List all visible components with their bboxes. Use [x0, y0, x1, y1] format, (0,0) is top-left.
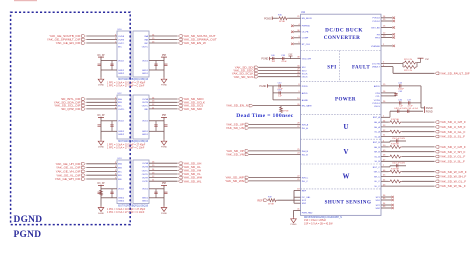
- node YAK_SD_SDI: [235, 65, 259, 69]
- ground DGND under U10: [98, 78, 105, 87]
- pin number 28: [297, 72, 300, 74]
- svg-text:YAK_SD_UN: YAK_SD_UN: [226, 126, 244, 130]
- node YAK_SD_W_SL_F: [435, 184, 466, 188]
- wire GND1: [149, 130, 164, 132]
- svg-text:GND2: GND2: [118, 198, 125, 200]
- svg-text:INL_C: INL_C: [302, 181, 309, 183]
- wire DC_CAL: [294, 196, 301, 198]
- U13 pin names: [118, 162, 149, 203]
- wire PWR_PAD down: [293, 210, 295, 217]
- wire YAK_SD_WP: [249, 176, 301, 178]
- node YAK_SD_V_GH_F: [435, 145, 466, 149]
- svg-text:AVDD: AVDD: [302, 92, 308, 95]
- pin number 4: [115, 101, 117, 103]
- no-connect stub pin 12: [381, 33, 395, 36]
- pin number 2: [115, 38, 117, 40]
- node YAK_SD_V_SH_F: [435, 150, 465, 154]
- node YAK_SD_V_GL_F: [435, 155, 465, 159]
- svg-text:COMP: COMP: [302, 38, 309, 40]
- wire BST_A: [381, 116, 390, 118]
- ground DGND under U12: [98, 140, 105, 149]
- svg-text:1 PF1 = 0.7uA = 27 75pF = C 10: 1 PF1 = 0.7uA = 27 75pF = C 10nF: [107, 84, 145, 87]
- node YAK_SD_VH: [178, 169, 201, 173]
- pin number 13: [152, 172, 155, 174]
- svg-text:VDD2: VDD2: [118, 189, 125, 191]
- node YAK_SD_SDA_DIF: [54, 100, 86, 104]
- wire PGND to R16: [272, 17, 277, 19]
- wire D3_3P to VDD2: [101, 60, 117, 62]
- pin number 3: [115, 97, 117, 99]
- SPI/FAULT divider: [339, 51, 341, 82]
- no-connect stub pin 3: [291, 36, 300, 39]
- svg-text:INE: INE: [118, 179, 122, 181]
- node YAK_SD_SDI: [178, 107, 202, 111]
- wire YAK_SD_UH: [149, 162, 178, 164]
- capacitor C45 charge pump: [394, 91, 403, 96]
- svg-text:SDI: SDI: [302, 67, 306, 69]
- wire YAK_SD_UN: [249, 127, 301, 129]
- pin number 14: [152, 169, 155, 171]
- wire PWR_PAD: [294, 209, 301, 211]
- U13 note 2: [107, 211, 145, 214]
- wire CPH stub: [381, 92, 396, 94]
- svg-text:GH_B: GH_B: [374, 147, 380, 149]
- capacitor C42: [277, 83, 283, 91]
- wire GND2: [101, 130, 117, 132]
- svg-text:SL_C: SL_C: [374, 186, 380, 188]
- svg-text:YAK_SD_V_SH_F: YAK_SD_V_SH_F: [440, 150, 466, 154]
- wire GL_C stub: [381, 180, 389, 182]
- svg-text:RT_CLK: RT_CLK: [302, 44, 311, 46]
- svg-text:REF: REF: [257, 198, 263, 202]
- node YAK_SD_UN: [226, 126, 249, 130]
- resistor R21 pull-up: [403, 59, 417, 67]
- pin number 12: [152, 104, 155, 106]
- node YAK_SD_SCLK: [232, 72, 259, 76]
- wire YAK_GE_VH_DIF: [86, 170, 117, 172]
- section title SPI: [327, 65, 337, 70]
- no-connect stub pin 15: [381, 19, 395, 22]
- wire GH_C: [402, 171, 435, 173]
- wire YAK_GE_SPWMLT_DIF: [86, 39, 117, 41]
- svg-text:BST_A: BST_A: [373, 116, 380, 119]
- svg-text:VSENSE: VSENSE: [371, 46, 380, 48]
- no-connect stub pin 35: [381, 198, 394, 201]
- svg-text:OUTA: OUTA: [118, 35, 124, 38]
- U13 note 1: [107, 208, 146, 211]
- node YAK_SD_WP: [225, 176, 248, 180]
- svg-text:PGND: PGND: [161, 85, 168, 87]
- pin number SL_B: [383, 160, 386, 162]
- svg-text:YAK_SD_SCS: YAK_SD_SCS: [233, 75, 253, 79]
- svg-text:PVDD2: PVDD2: [373, 18, 381, 20]
- svg-text:SO2: SO2: [302, 200, 307, 202]
- node YAK_SD_SDO: [233, 69, 258, 73]
- wire YAK_SD_SDI: [258, 66, 300, 68]
- pin number 27: [297, 75, 300, 77]
- svg-text:PVDD2: PVDD2: [373, 21, 381, 23]
- svg-text:INB: INB: [118, 102, 122, 104]
- no-connect stub pin 16: [381, 26, 395, 29]
- pin number SH_A: [383, 125, 386, 127]
- wire YAK_SD_SCLK: [149, 101, 178, 103]
- svg-text:GH_C: GH_C: [374, 172, 380, 174]
- wire PVDD1 right: [381, 102, 421, 104]
- svg-text:1SF = 5.7uA = 2B = 42.5W: 1SF = 5.7uA = 2B = 42.5W: [304, 222, 333, 225]
- pin number SL_C: [383, 184, 386, 186]
- pin number GH_B: [383, 145, 386, 147]
- svg-text:D3_3P: D3_3P: [97, 183, 104, 185]
- wire D3_3P to VDD2: [101, 188, 117, 190]
- svg-text:INC: INC: [118, 171, 122, 173]
- node YAK_GE_SOUTB_DIF: [49, 34, 85, 38]
- wire GND1: [149, 197, 164, 199]
- pin number 41: [297, 209, 300, 211]
- svg-text:GH_A: GH_A: [374, 121, 380, 124]
- wire P5P to VDD1: [149, 60, 164, 62]
- pin number 13: [152, 101, 155, 103]
- svg-text:V: V: [344, 149, 349, 156]
- node SD_INTL_DIF: [61, 97, 85, 101]
- svg-text:P5P: P5P: [162, 183, 167, 185]
- wire SN2: [294, 202, 301, 204]
- pin number 5: [115, 170, 117, 172]
- svg-text:INH_A: INH_A: [302, 123, 309, 126]
- pin number 16: [152, 162, 155, 164]
- svg-text:YAK_GE_EN_DIF: YAK_GE_EN_DIF: [56, 41, 81, 45]
- node PGND (domain label): [14, 230, 42, 240]
- no-connect stub pin 20: [381, 36, 395, 39]
- svg-text:SDO: SDO: [302, 70, 307, 72]
- svg-text:OUTC: OUTC: [142, 170, 149, 172]
- svg-text:SL_B: SL_B: [374, 161, 380, 163]
- pin number 14: [152, 34, 155, 36]
- node YAK_SD_WN: [225, 179, 249, 183]
- pin number GL_C: [383, 180, 386, 182]
- capacitor U10 right decoupling 2: [154, 61, 157, 71]
- svg-text:GND2: GND2: [118, 70, 125, 72]
- wire D3_3P vertical: [100, 188, 102, 206]
- svg-text:INL_A: INL_A: [302, 127, 309, 130]
- wire GH_B stub: [381, 146, 389, 148]
- section divider: [301, 113, 382, 115]
- svg-text:P5P: P5P: [162, 55, 167, 57]
- svg-text:INA: INA: [144, 35, 148, 38]
- wire YAK_SD_SCS: [149, 105, 178, 107]
- wire GND2: [101, 197, 117, 199]
- svg-text:47*GE: 47*GE: [283, 111, 290, 113]
- digital isolator U12: [117, 93, 149, 139]
- wire to PGND flag: [421, 107, 425, 109]
- node YAK_SD_U_SL_F: [435, 135, 465, 139]
- U13 part number: [118, 206, 149, 208]
- svg-text:C50 1uF 100V: C50 1uF 100V: [392, 138, 406, 140]
- pin number 7: [115, 177, 117, 179]
- U11 right pin names: [371, 18, 381, 210]
- pin number 5: [383, 62, 385, 64]
- pin number 38: [297, 57, 300, 59]
- capacitor bootstrap CB: [390, 138, 406, 143]
- svg-text:PVDD: PVDD: [302, 86, 308, 88]
- node YAK_SD_W_SH_F: [435, 175, 466, 179]
- svg-text:INC: INC: [144, 43, 148, 45]
- svg-text:IND: IND: [144, 109, 148, 111]
- svg-text:INA: INA: [118, 98, 122, 101]
- wire YAK_SD_SCL_DIF: [86, 105, 117, 107]
- svg-text:OUTE: OUTE: [142, 178, 149, 180]
- node YAK_SD_SCS: [178, 104, 203, 108]
- wire YAK_SD_VP: [249, 150, 301, 152]
- wire YAK_SD_VL: [149, 173, 178, 175]
- wire YAK_SD_SDA_DIF: [86, 101, 117, 103]
- svg-text:YAK_SD_U_GH_F: YAK_SD_U_GH_F: [440, 120, 466, 124]
- svg-text:R 56*GE: R 56*GE: [391, 144, 400, 146]
- resistor R22 pull-up: [403, 66, 417, 72]
- pin number 24: [297, 153, 300, 155]
- pin number 21: [297, 16, 300, 18]
- pin number 14: [152, 97, 155, 99]
- node YAK_GE_UL_DIF: [56, 166, 85, 170]
- svg-text:REF: REF: [302, 190, 307, 192]
- pin number 15: [152, 38, 155, 40]
- pin number SH_B: [383, 150, 386, 152]
- section title FAULT: [352, 65, 370, 70]
- svg-text:BST_B: BST_B: [373, 142, 380, 144]
- wire YAK_SD_WN: [249, 180, 301, 182]
- pin number 18: [297, 189, 300, 191]
- no-connect stub pin 36: [291, 30, 300, 33]
- capacitor C46: [398, 100, 403, 108]
- node YAK_SD_U_GL_F: [435, 130, 465, 134]
- section divider: [301, 50, 382, 52]
- svg-text:PGND: PGND: [161, 147, 168, 149]
- node YAK_SD_SPWMA_OUT: [178, 38, 217, 42]
- node YAK_SD_UL: [178, 165, 201, 169]
- pin number GH_C: [383, 170, 386, 172]
- svg-text:R 56*GE: R 56*GE: [391, 119, 400, 121]
- pin number 3: [115, 34, 117, 36]
- node YAK_SD_EN_W: [178, 41, 206, 45]
- svg-text:nFAULT: nFAULT: [372, 66, 381, 69]
- node SD_QHZ_DIF: [61, 107, 85, 111]
- svg-text:INC: INC: [118, 46, 122, 48]
- resistor R19: [267, 197, 278, 206]
- wire YAK_GE_EN_DIF: [86, 42, 117, 44]
- pin number BST_A: [383, 116, 385, 118]
- svg-text:OUTC: OUTC: [142, 46, 149, 48]
- wire GL_A stub: [381, 131, 389, 133]
- node YAK_SD_WL: [178, 179, 201, 183]
- svg-text:CONVERTER: CONVERTER: [324, 35, 361, 41]
- svg-text:GND2: GND2: [118, 131, 125, 133]
- svg-text:YAK_SD_VN: YAK_SD_VN: [226, 153, 244, 157]
- pin number 25: [297, 149, 300, 151]
- svg-text:YAK_SD_V_GL_F: YAK_SD_V_GL_F: [440, 155, 465, 159]
- section divider: [301, 81, 382, 83]
- svg-text:OUTB: OUTB: [142, 102, 149, 104]
- capacitor bootstrap CC: [390, 163, 406, 168]
- wire SH_B: [381, 151, 435, 153]
- svg-text:YAK_SD_W_GH_F: YAK_SD_W_GH_F: [440, 170, 467, 174]
- svg-text:LS_FB: LS_FB: [302, 32, 309, 34]
- wire P5P vertical: [163, 120, 165, 140]
- wire GH_C stub: [381, 171, 389, 173]
- node YAK_GE_EN_DIF: [56, 41, 86, 45]
- svg-text:GND1: GND1: [142, 198, 149, 200]
- wire YAK_SD_VH: [149, 169, 178, 171]
- node YAK_SD_W_GH_F: [435, 170, 467, 174]
- capacitor U13 right decoupling 1: [164, 192, 167, 193]
- U10 pin names: [118, 35, 149, 75]
- wire GH_A: [402, 121, 435, 123]
- pin number 15: [383, 84, 386, 86]
- wire AVDD right: [381, 85, 421, 87]
- svg-text:SL_A: SL_A: [374, 135, 380, 138]
- pin number 5: [115, 104, 117, 106]
- node YAK_SD_UP: [226, 123, 249, 127]
- U11 note 2: [304, 222, 333, 225]
- svg-text:GND1: GND1: [142, 134, 149, 136]
- svg-text:DGND: DGND: [98, 147, 105, 149]
- capacitor U10 left decoupling 2: [110, 61, 113, 71]
- clipped text at top edge: [14, 0, 37, 1]
- node YAK_SD_VN: [226, 153, 249, 157]
- svg-text:OUTC: OUTC: [118, 43, 125, 45]
- pin number 8: [298, 84, 300, 86]
- section title W: [343, 174, 350, 181]
- svg-text:YAK_SD_W_GL_F: YAK_SD_W_GL_F: [440, 179, 466, 183]
- wire SO2: [294, 199, 301, 201]
- svg-text:INH_B: INH_B: [302, 151, 309, 153]
- pin number 21: [297, 179, 300, 181]
- isolation boundary (dashed): [11, 12, 131, 224]
- svg-text:PGND: PGND: [261, 58, 268, 61]
- node YAK_SD_VL: [178, 172, 201, 176]
- pin number 6: [115, 107, 117, 109]
- wire GL_A: [402, 131, 435, 133]
- section title SHUNT SENSING: [325, 200, 372, 205]
- no-connect stub pin 4: [291, 24, 300, 27]
- wire YAK_SD_SOUTA_OUT: [149, 35, 178, 37]
- section divider: [301, 163, 382, 165]
- no-connect stub pin 1: [291, 42, 300, 45]
- svg-text:YAK_SD_W_SH_F: YAK_SD_W_SH_F: [440, 175, 466, 179]
- svg-text:SD_QHZ_DIF: SD_QHZ_DIF: [61, 107, 80, 111]
- no-connect stub pin 2: [381, 44, 395, 47]
- svg-text:PGND: PGND: [259, 85, 266, 88]
- svg-text:INC: INC: [118, 106, 122, 108]
- node YAK_SD_VP: [226, 149, 249, 153]
- wire R19 to bracket: [278, 199, 295, 201]
- svg-text:nOCTW: nOCTW: [372, 63, 381, 65]
- wire YAK_GE_WH_DIF: [86, 178, 117, 180]
- svg-text:OUTA: OUTA: [142, 98, 148, 101]
- svg-text:VCPH: VCPH: [374, 100, 380, 102]
- wire SL_C: [381, 185, 435, 187]
- node YAK_SD_SOUTA_OUT: [178, 34, 215, 38]
- svg-text:SPI: SPI: [327, 65, 337, 70]
- power flag PGND at PVDD: [259, 84, 267, 88]
- svg-text:PGND: PGND: [264, 17, 271, 20]
- capacitor U10 right decoupling 1: [164, 64, 167, 65]
- svg-text:DGND: DGND: [14, 215, 43, 225]
- power flag P5P at nFAULT pull-ups: [417, 58, 430, 67]
- svg-text:AGND: AGND: [302, 99, 309, 102]
- wire nFAULT: [381, 66, 393, 68]
- wire YAK_GE_UH_DIF: [86, 163, 117, 165]
- wire nOCTW: [381, 63, 403, 65]
- wire SD_QHZ_DIF: [86, 108, 117, 110]
- pin number 30: [297, 66, 300, 68]
- node YAK_SD_EN_N: [226, 104, 253, 108]
- svg-text:PH: PH: [377, 34, 380, 36]
- pin number 28: [297, 123, 300, 125]
- no-connect stub pin 14: [381, 16, 395, 19]
- svg-text:BST_BK: BST_BK: [371, 27, 380, 29]
- capacitor C44: [398, 83, 404, 91]
- svg-text:YAK_SD_U_SH_F: YAK_SD_U_SH_F: [440, 125, 466, 129]
- svg-text:VDD1: VDD1: [142, 121, 149, 123]
- resistor U13 left series: [100, 190, 103, 195]
- U12 note 2: [107, 146, 145, 149]
- svg-text:GL_C: GL_C: [374, 181, 380, 183]
- U11 note 1: [304, 219, 327, 222]
- svg-text:PGND: PGND: [290, 224, 297, 226]
- wire YAK_GE_UL_DIF: [86, 167, 117, 169]
- svg-text:1 PF1 = 0.7uA = 27 75pF = C 10: 1 PF1 = 0.7uA = 27 75pF = C 10nF: [107, 211, 145, 214]
- node YAK_SD_WH: [178, 176, 202, 180]
- power flag D3_3P supply U10 left: [97, 55, 104, 60]
- pin number 6: [383, 65, 385, 67]
- resistor R16: [278, 15, 289, 24]
- svg-text:YAK_SD_W_SL_F: YAK_SD_W_SL_F: [440, 184, 466, 188]
- svg-text:nSCS: nSCS: [302, 77, 308, 79]
- pin number SH_C: [383, 175, 386, 177]
- svg-text:INA: INA: [118, 163, 122, 166]
- wire GH_A stub: [381, 121, 389, 123]
- wire YAK_SD_SCS: [258, 76, 300, 78]
- pin number 11: [152, 107, 155, 109]
- resistor R gate GH_A: [389, 119, 403, 124]
- svg-text:YAK_SD_WN: YAK_SD_WN: [225, 179, 244, 183]
- svg-text:GND2: GND2: [118, 134, 125, 136]
- svg-text:0.1uF: 0.1uF: [281, 61, 287, 63]
- U12 part number: [118, 141, 149, 143]
- pin number 11: [152, 180, 155, 182]
- ground PGND under U13: [161, 206, 168, 215]
- pin number 4: [115, 166, 117, 168]
- svg-text:YAK_SD_U_GL_F: YAK_SD_U_GL_F: [440, 130, 466, 134]
- svg-text:YAK_SD_WL: YAK_SD_WL: [183, 179, 202, 183]
- wire CPL stub: [381, 95, 396, 97]
- wire D3_3P to VDD2: [101, 120, 117, 122]
- wire PVDD bus vertical: [272, 86, 274, 100]
- U10 part number: [118, 79, 149, 81]
- U12 pin names: [118, 98, 149, 136]
- pin number GL_B: [383, 155, 386, 157]
- svg-text:56*GE: 56*GE: [279, 21, 286, 23]
- pin number 16: [383, 91, 386, 93]
- svg-text:VDD1: VDD1: [142, 189, 149, 191]
- wire GL_C: [402, 180, 435, 182]
- node YAK_SD_U_SH_F: [435, 125, 465, 129]
- section divider: [301, 138, 382, 140]
- svg-text:56*GE: 56*GE: [268, 204, 275, 206]
- svg-text:INB: INB: [144, 39, 148, 41]
- node YAK_SD_W_GL_F: [435, 179, 466, 183]
- section title V: [344, 149, 349, 156]
- svg-text:SHUNT SENSING: SHUNT SENSING: [325, 200, 372, 205]
